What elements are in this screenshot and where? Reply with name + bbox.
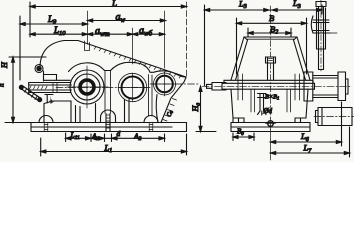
side view center line vertical: [270, 6, 272, 57]
left foot side: [233, 118, 244, 123]
axis dash-dot side view: [202, 85, 351, 87]
dimension a_w line: [88, 19, 166, 22]
bottom dim row1 front: [66, 133, 165, 142]
extension line axis c3: [164, 11, 166, 68]
slant hatching: [94, 47, 181, 78]
C2 boss ring: [118, 73, 146, 101]
cover top slant line: [78, 41, 186, 78]
base plate front view: [31, 123, 187, 132]
extension line right of L: [186, 2, 188, 77]
diagonal hatched key bar: [19, 85, 41, 101]
dimension L6: [271, 102, 342, 146]
rib pair under C1: [76, 106, 81, 123]
rib under C1 right: [95, 104, 97, 123]
C3 boss ring: [154, 73, 176, 95]
cover scalloped bottom edge: [69, 62, 187, 77]
cap bolt top: [266, 57, 276, 80]
dimension H0 vertical: [196, 86, 216, 131]
front view right edge: [161, 78, 186, 123]
C1 bearing ring bold: [80, 80, 94, 94]
dimension L10 line: [30, 11, 88, 37]
side housing lower walls: [231, 89, 308, 118]
C1 center cross: [67, 66, 108, 108]
left foot bolt hatch: [44, 123, 48, 132]
foundation bolt circle: [266, 118, 276, 160]
svg-text:Ød: Ød: [263, 107, 273, 115]
side view trapezoid housing: [231, 37, 310, 80]
right edge hatching: [163, 99, 177, 122]
rib between C2 C3: [149, 75, 153, 117]
C2 center cross: [118, 73, 147, 101]
dimension B: [237, 18, 307, 74]
side view right output shaft: [304, 72, 348, 101]
dimension L1 bottom: [41, 134, 187, 156]
front view left wall: [44, 71, 71, 123]
breather plug on cover top: [85, 41, 90, 51]
joint flange band: [222, 80, 315, 89]
bearing boss verticals: [238, 74, 300, 100]
bottom right shaft detail: [314, 108, 354, 126]
right foot side: [295, 118, 306, 123]
dimension a_wB line: [133, 33, 165, 36]
C1 mid circle: [74, 74, 100, 100]
svg-text:B: B: [269, 13, 274, 23]
circle C3: [156, 76, 173, 93]
rib pair under C2: [125, 100, 130, 123]
input shaft protruding left: [29, 83, 72, 93]
lower web left: [50, 101, 71, 123]
left foot arch: [39, 116, 53, 123]
right view top dimension L3 L3: [205, 5, 323, 86]
inner verticals bearing: [251, 89, 291, 112]
side view base: [231, 123, 310, 132]
rib pair dip C1C2: [105, 71, 111, 114]
anchor bolt glyph: [258, 94, 267, 116]
dimension a_wT line: [88, 33, 133, 36]
circle C2: [122, 77, 144, 99]
C3 center cross: [152, 72, 177, 96]
dimension L9 line: [20, 16, 88, 80]
side view left shaft: [207, 83, 227, 91]
right foot bolt hatch: [149, 123, 153, 132]
extension line axis c1: [87, 11, 89, 44]
main axis dash-dot line: [56, 87, 150, 89]
front view cover top arc: [40, 41, 78, 69]
dimension L line: [30, 2, 187, 11]
dimension B0: [233, 133, 254, 141]
dimension L7: [271, 127, 350, 157]
right foot arch: [144, 116, 158, 123]
extension line axis c2: [132, 28, 134, 64]
svg-text:d: d: [117, 129, 121, 138]
eye lug: [35, 65, 43, 73]
dimension H vertical: [5, 57, 46, 123]
svg-text:h: h: [0, 83, 6, 87]
middle arch with bolt: [101, 110, 116, 131]
web under C3: [156, 95, 158, 123]
bolt joint detail top right: [311, 0, 337, 71]
dimension B2: [248, 28, 291, 37]
svg-text:L: L: [111, 0, 117, 8]
bearing boss circle C1 outer: [70, 70, 104, 104]
